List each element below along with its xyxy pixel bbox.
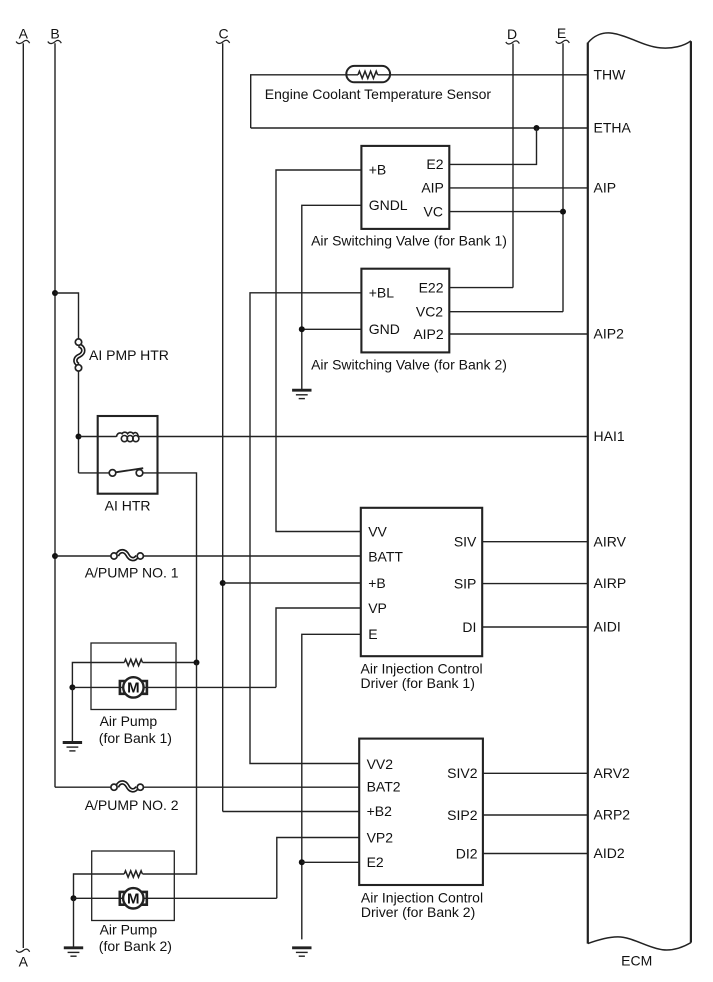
svg-text:Air Switching Valve (for Bank: Air Switching Valve (for Bank 2) [311,357,507,373]
svg-text:Air Pump: Air Pump [100,713,158,729]
svg-text:DI2: DI2 [456,845,478,861]
break symbol A bottom [16,949,30,952]
wire THW (sensor top line to ECM) [251,75,358,128]
wire bus C [222,43,224,811]
op-box driver1 (Air Injection Control Driver Bank 1) [361,508,482,656]
wire GND (valve2) to gnd line [302,328,362,330]
wire DI to AIDI [482,626,588,628]
relay contact right [136,470,143,477]
wire switch column to ap2 resistor [143,663,197,875]
wire E2 (driver2) [302,861,359,863]
wire VP2 (driver2 to motor2) [277,838,359,899]
wire SIV to AIRV [482,541,588,543]
svg-text:THW: THW [594,66,627,82]
thermistor zigzag [358,71,378,78]
ground G1 (valve ground) [292,390,311,398]
wire +B (valve1) to VV vertical [276,170,361,532]
wire bus D [512,44,514,288]
wire E (driver1 to ground) [302,634,361,939]
svg-text:BAT2: BAT2 [367,779,401,795]
svg-text:AIP: AIP [594,180,617,196]
svg-text:+B: +B [368,575,386,591]
svg-text:(for Bank 1): (for Bank 1) [99,730,172,746]
svg-text:+B: +B [369,162,387,178]
svg-text:A: A [19,25,29,41]
svg-text:Air Switching Valve (for Bank: Air Switching Valve (for Bank 1) [311,232,507,248]
wire ap1 ground stem [71,687,73,741]
svg-text:VV: VV [368,523,387,539]
break symbol D top [506,41,520,44]
svg-text:E2: E2 [367,854,384,870]
break symbol E top [556,40,570,43]
svg-text:C: C [218,25,228,41]
svg-text:SIV2: SIV2 [447,765,478,781]
svg-text:AI HTR: AI HTR [105,498,151,514]
svg-text:E: E [557,25,566,41]
svg-text:AID2: AID2 [594,845,625,861]
wire relay switch out [143,473,197,663]
thermistor (sensor element, pill) [346,66,390,82]
wire E2 (valve1) up to ETHA [449,128,536,164]
svg-text:DI: DI [462,619,476,635]
wire bus A [22,43,24,948]
svg-text:D: D [507,26,517,42]
air pump1 box [91,643,176,710]
svg-text:Driver (for Bank 2): Driver (for Bank 2) [361,904,475,920]
wire SIP2 to ARP2 [483,814,588,816]
svg-text:A/PUMP NO. 1: A/PUMP NO. 1 [85,564,179,580]
junction dot GND/gnd-line [299,326,305,332]
svg-text:VP: VP [368,600,387,616]
svg-text:GND: GND [369,321,400,337]
wire B to fuse F2 [55,555,111,557]
junction dot fuse/coil [76,434,82,440]
ground G3 (air pump 2) [64,948,83,956]
wire fuse F3 to BAT2 [143,786,359,788]
svg-text:A: A [19,954,29,970]
svg-text:M: M [127,891,140,908]
svg-text:AIRV: AIRV [594,533,627,549]
resistor R2 (ap2) [124,871,142,877]
svg-text:(for Bank 2): (for Bank 2) [99,938,172,954]
junction dot ap1 left [69,684,75,690]
junction dot ap2 left [71,895,77,901]
svg-text:E2: E2 [426,156,443,172]
wire B to fuse F1 [55,293,79,339]
svg-text:M: M [127,680,140,697]
relay contact left [109,470,116,477]
wire motor line ap2 [74,897,277,899]
svg-text:+BL: +BL [369,285,395,301]
relay switch blade [116,468,144,472]
wire SIP to AIRP [482,583,588,585]
svg-text:Driver (for Bank 1): Driver (for Bank 1) [361,675,475,691]
svg-text:SIV: SIV [454,534,477,550]
svg-text:HAI1: HAI1 [594,428,625,444]
svg-text:VC: VC [424,203,443,219]
ECM U1 (connector body) [588,33,691,950]
wire E22 (valve2 to node D) [449,287,513,289]
relay box K1 (AI HTR) [98,416,158,494]
wire +BL (valve2) to VV2 vertical [250,293,361,764]
svg-text:AIDI: AIDI [594,619,621,635]
svg-text:Air Pump: Air Pump [100,921,158,937]
wire +B driver1 (C to box) [223,582,361,584]
break symbol B top [48,40,62,43]
svg-text:AIP2: AIP2 [413,326,444,342]
svg-text:ARP2: ARP2 [594,807,631,823]
ground G4 (driver E ground) [292,948,311,956]
fuse F1 AI PMP HTR [75,339,83,371]
motor M1 (air pump 1) [120,677,147,697]
relay coil K1 [116,432,138,442]
motor M2 (air pump 2) [120,888,147,908]
junction dot switch/resistor ap1 [194,660,200,666]
wire HAI1 (coil line to ECM) [79,436,588,438]
break symbol A top [16,40,30,43]
wire DI2 to AID2 [483,853,588,855]
svg-text:ETHA: ETHA [594,120,632,136]
wire fuse F1 to relay [78,371,80,473]
svg-text:AIP: AIP [421,180,444,196]
wire bus E [562,43,564,312]
svg-text:A/PUMP NO. 2: A/PUMP NO. 2 [85,797,179,813]
svg-text:ECM: ECM [621,952,652,968]
svg-text:AI PMP HTR: AI PMP HTR [89,347,169,363]
svg-text:AIRP: AIRP [594,575,627,591]
wire THW (right of thermistor) [378,74,588,76]
svg-text:GNDL: GNDL [369,197,408,213]
svg-text:B: B [50,25,59,41]
svg-text:BATT: BATT [368,549,403,565]
junction dot ETHA/E2 [534,125,540,131]
svg-text:SIP: SIP [454,576,477,592]
wire VC (valve1 to node E) [449,211,563,213]
svg-text:VP2: VP2 [367,829,394,845]
break symbol C top [216,40,230,43]
op-box valve1 (Air Switching Valve Bank 1) [361,146,449,229]
fuse F3 A/PUMP NO.2 [111,782,143,790]
wire fuse F2 to BATT [143,555,360,557]
air pump2 box [92,851,175,921]
junction dot E/E2 [299,859,305,865]
svg-text:ARV2: ARV2 [594,765,631,781]
wire resistor line ap2 [74,874,125,898]
svg-text:VC2: VC2 [416,304,443,320]
wire ETHA (sensor bottom line to ECM) [251,127,588,129]
wire resistor line ap1 [72,663,196,688]
wire SIV2 to ARV2 [483,772,588,774]
wire relay switch feed [79,472,110,474]
wire motor line ap1 [72,686,276,688]
junction dot VC/E [560,209,566,215]
wire AIP2 (valve2 to ECM) [449,333,588,335]
junction dot B/fuse [52,290,58,296]
ground G2 (air pump 1) [63,743,82,751]
svg-text:+B2: +B2 [367,803,393,819]
op-box valve2 (Air Switching Valve Bank 2) [361,269,449,353]
resistor R1 (ap1) [124,659,142,665]
wire VC2 (valve2 to node E) [449,311,563,313]
junction dot B/APUMP1 [52,553,58,559]
wire ap2 ground stem [73,898,75,947]
fuse F2 A/PUMP NO.1 [111,551,143,559]
op-box driver2 (Air Injection Control Driver Bank 2) [359,739,483,885]
svg-text:SIP2: SIP2 [447,807,478,823]
junction dot C/+B [220,580,226,586]
wire VP (driver1 to motor1) [276,608,361,687]
wire bus B [54,43,56,787]
wire GNDL (valve1) down to ground [302,205,362,389]
svg-text:E22: E22 [419,279,444,295]
wire B to fuse F3 [55,786,111,788]
wire AIP (valve1 to ECM) [449,187,588,189]
svg-text:Engine Coolant Temperature Sen: Engine Coolant Temperature Sensor [265,86,492,102]
svg-text:AIP2: AIP2 [594,326,625,342]
svg-text:E: E [368,626,377,642]
svg-text:VV2: VV2 [367,756,394,772]
wire +B2 (C to driver2) [223,811,360,813]
